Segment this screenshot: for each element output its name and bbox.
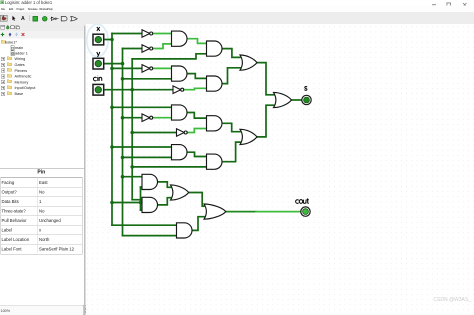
wire pin y output: [104, 63, 123, 65]
or-gate OR1 (sum upper): [240, 55, 257, 70]
wire AND3b output to OR2 upper: [222, 123, 240, 131]
wire pin x output: [104, 39, 112, 41]
wire cin to AND4b lower input: [132, 166, 206, 168]
wire OR4 output to OR5 upper: [189, 193, 204, 207]
wire junction: [110, 201, 114, 205]
wire y-spine vertical: [122, 49, 124, 236]
wire AND2b output to OR1 lower: [222, 68, 240, 84]
or-gate OR3 (sum final): [274, 92, 292, 107]
attribute panel: [0, 168, 84, 306]
wire x to AND5 lower input: [141, 186, 143, 188]
wire y to AND5 upper input: [123, 176, 143, 178]
wire cin-spine vertical: [131, 59, 133, 200]
wire cin to AND6 upper input: [132, 199, 142, 201]
wire AND6 output to OR4 lower: [158, 198, 171, 205]
wire junction: [110, 38, 114, 42]
wire NOT5 output to AND2b lower: [184, 88, 206, 89]
project buttons row: [0, 31, 84, 39]
label s: [304, 87, 307, 91]
wire x tap to carry AND gates: [112, 202, 141, 204]
not-gate NOT1 (x'): [142, 30, 153, 38]
zoom row: [0, 305, 91, 315]
wire junction: [130, 165, 134, 169]
output pin s: [302, 95, 311, 104]
text tool: [21, 16, 25, 22]
wire AND3a output to AND3b: [187, 113, 207, 119]
and-gate AND7 (x y): [177, 223, 193, 238]
wire NOT1 output to AND1a: [153, 33, 172, 35]
wire x to NOT3 input: [112, 67, 142, 69]
not-gate NOT2 (y'): [142, 45, 153, 53]
or-gate OR5 (carry final): [204, 204, 226, 219]
wire cin to AND1b lower input: [132, 54, 206, 59]
wire OR5 output to pin cout (left): [226, 211, 256, 213]
circuit canvas: [86, 24, 474, 315]
wire AND2a output to AND2b: [187, 74, 207, 79]
wire NOT6 output to AND3b lower: [188, 129, 207, 133]
explorer toolbar: [0, 24, 84, 31]
and-gate AND1a (x' y'): [172, 31, 188, 46]
wire AND7 output to OR5 lower: [192, 217, 204, 231]
wire y to AND7 lower input: [123, 235, 177, 237]
wire junction: [121, 156, 125, 160]
wire y to NOT2 input: [123, 48, 143, 50]
wire y to NOT4 input: [123, 117, 143, 119]
output pin cout: [301, 207, 310, 216]
and-gate AND2a (x' y): [172, 66, 188, 81]
label y: [97, 52, 100, 57]
wire OR2 output to OR3 lower: [257, 105, 274, 137]
wire NOT2 output to AND1a lower: [153, 44, 172, 49]
not-gate NOT4 (y'): [142, 114, 153, 122]
wire AND5 output to OR4 upper: [158, 182, 171, 187]
wire NOT4 output to AND3a lower: [153, 117, 172, 119]
or-gate OR4 (carry upper): [171, 185, 189, 200]
wire junction: [110, 106, 114, 110]
and-gate AND6 (cin x): [142, 197, 158, 212]
main toolbar: [0, 12, 474, 25]
wire OR3 output to pin s: [292, 99, 302, 101]
and-gate AND4a (x y): [172, 145, 188, 160]
label cout: [296, 198, 309, 203]
input pin icon: [33, 16, 39, 22]
explorer tree: [0, 40, 84, 165]
AND gate icon: [61, 16, 69, 23]
and-gate AND4b (t4 cin): [207, 154, 223, 169]
wire y to AND2a lower input: [123, 78, 172, 80]
wire junction: [121, 175, 125, 179]
wire junction: [110, 145, 114, 149]
wire y to AND4a lower input: [123, 156, 172, 158]
wire AND1b output to OR1: [222, 49, 240, 58]
label cin: [93, 76, 101, 81]
not-gate NOT5 (cin'): [173, 86, 184, 94]
selection halo around pin x: [87, 24, 108, 56]
NOT gate icon: [50, 17, 59, 22]
and-gate AND3b (t3 cin'): [207, 116, 223, 131]
wire x to NOT1 input: [112, 33, 142, 35]
output pin icon: [42, 16, 48, 22]
wire pin cin run: [104, 89, 173, 91]
OR gate icon: [70, 16, 78, 23]
wire junction: [130, 131, 134, 135]
and-gate AND1b (t1 cin): [207, 41, 223, 56]
separator: [28, 16, 31, 22]
wire x to AND6 lower input: [141, 209, 143, 211]
wire junction: [130, 88, 134, 92]
input pin y: [93, 58, 104, 69]
and-gate AND2b (t2 cin'): [207, 76, 223, 91]
wire OR1 output to OR3 upper: [257, 63, 274, 95]
svg-text:CSDN @W3AS_: CSDN @W3AS_: [433, 297, 471, 303]
menu bar: [0, 6, 474, 13]
divider: [84, 26, 86, 315]
wire x to AND3a upper input: [112, 106, 172, 108]
app icon: [1, 1, 5, 5]
or-gate OR2 (sum lower): [240, 129, 257, 144]
input pin cin: [93, 84, 104, 95]
input pin x: [93, 34, 104, 45]
window buttons: [431, 3, 469, 8]
wire AND4a output to AND4b: [187, 152, 207, 156]
and-gate AND3a (x y'): [172, 105, 188, 120]
not-gate NOT6 (cin'): [177, 129, 188, 137]
wire AND4b output to OR2 lower: [222, 142, 240, 162]
wire x to AND4a upper input: [112, 146, 172, 148]
wire junction: [121, 116, 125, 120]
wire junction: [121, 62, 125, 66]
wire junction: [110, 67, 114, 71]
wire cin to NOT6 input: [132, 132, 176, 134]
wire OR5 output to pin cout (right): [256, 211, 301, 213]
title bar: [0, 0, 474, 6]
wire junction: [121, 77, 125, 81]
label x: [97, 27, 100, 31]
wire riser x to AND5/AND6: [140, 187, 142, 210]
edit tool arrow: [12, 16, 17, 22]
wire x-spine vertical: [111, 34, 113, 226]
poke tool button (selected): [0, 15, 8, 22]
wire NOT3 output to AND2a: [153, 67, 172, 69]
not-gate NOT3 (x'): [142, 65, 153, 73]
wire AND1a output to AND1b: [187, 39, 207, 44]
and-gate AND5 (y x): [142, 174, 158, 189]
wire junction: [139, 201, 143, 205]
wire x to AND7 upper input: [112, 224, 177, 226]
